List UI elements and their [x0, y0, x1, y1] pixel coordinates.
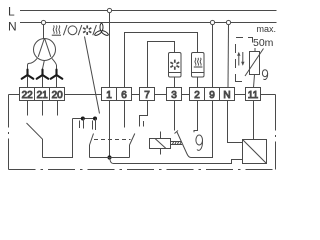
- svg-text:9: 9: [209, 90, 215, 101]
- valve heating divider: [192, 72, 205, 74]
- wire fan2 to terminal 21: [42, 77, 44, 88]
- contact prong rail d: [95, 119, 97, 131]
- wire N junction to fan motor: [43, 25, 45, 39]
- wire motor leg left: [28, 58, 38, 68]
- wire terminal 21 contact stub: [42, 101, 44, 116]
- svg-text:3: 3: [171, 90, 177, 101]
- label max.: [257, 24, 277, 34]
- icon mode separator slash 1: [63, 25, 67, 35]
- housing border bottom (dash-dot): [9, 169, 276, 171]
- relay coil stub bottom: [160, 149, 162, 155]
- fan propeller 2: [37, 70, 49, 79]
- contact prong rail b: [83, 119, 85, 129]
- node junction dot rail right: [93, 117, 97, 121]
- housing border right (dash-dot): [275, 95, 277, 170]
- wire motor leg right: [52, 58, 57, 68]
- switch changeover right arm: [130, 134, 135, 146]
- svg-text:1: 1: [106, 90, 112, 101]
- housing border left (dash-dot): [8, 95, 10, 170]
- remote sensor thermistor: [245, 48, 264, 76]
- contact tick on terminal 3 stub: [175, 131, 179, 134]
- wire common node right to changeover right: [110, 157, 130, 159]
- valve actuator heating box: [192, 53, 205, 78]
- terminal 22: [20, 88, 35, 101]
- fan propeller 1: [22, 70, 34, 79]
- wire mechanical link from mode selector: [85, 37, 100, 114]
- label 50m: [253, 37, 274, 49]
- wire bimetal arm to terminal 9: [191, 101, 213, 158]
- wire terminal 11 to right border: [261, 94, 276, 96]
- node junction on N line to terminal N: [226, 20, 230, 24]
- wire terminal N down to output interface: [228, 101, 243, 143]
- wire fan3 to terminal 20: [56, 77, 58, 88]
- wire L junction down to terminal 1: [109, 13, 111, 88]
- wire terminal 3 contact stub: [174, 101, 176, 131]
- valve cooling divider: [169, 72, 182, 74]
- motor inner chord right: [45, 39, 51, 57]
- svg-text:2: 2: [194, 90, 200, 101]
- contact prong rail a: [79, 121, 81, 129]
- wire heating valve to terminal 2: [197, 77, 199, 88]
- remote sensor dashed enclosure left and bottom: [236, 44, 243, 82]
- icon mode separator slash 2: [78, 25, 82, 35]
- svg-text:L: L: [8, 5, 15, 19]
- wire terminal N to 11: [235, 94, 246, 96]
- svg-text:max.: max.: [257, 24, 277, 34]
- node junction on N line to fan motor: [41, 20, 45, 24]
- wire terminal 6 lower contact stub: [124, 101, 126, 128]
- wire terminal 11 down to output interface: [253, 101, 255, 140]
- label N: [8, 20, 17, 34]
- svg-text:22: 22: [22, 90, 34, 101]
- svg-text:11: 11: [248, 90, 259, 101]
- icon mode off circle: [68, 26, 77, 35]
- fan propeller 3: [51, 70, 63, 79]
- wire terminal 20 contact stub: [57, 101, 59, 116]
- wire L line: [20, 10, 277, 12]
- icon mode fan: [94, 23, 109, 36]
- svg-text:50m: 50m: [253, 37, 274, 49]
- terminal 20: [50, 88, 65, 101]
- switch fan-speed selector arm: [27, 123, 43, 158]
- wire terminal row left border to 22: [9, 94, 20, 96]
- wire mechanical dashed link between switch arms: [94, 139, 131, 141]
- icon mode cool star: [83, 25, 91, 35]
- switch bimetal arm: [177, 132, 191, 158]
- label remote theta: [262, 70, 267, 80]
- wire motor leg centre: [43, 61, 45, 69]
- contact prong rail c: [92, 121, 94, 130]
- motor inner chord left: [38, 39, 44, 57]
- wire cooling valve to terminal 3: [174, 77, 176, 88]
- wire terminal 7 lower path: [140, 101, 148, 127]
- wire changeover left pivot down: [89, 145, 91, 158]
- wire selector common to contact rail: [43, 119, 73, 158]
- terminal 2: [190, 88, 205, 101]
- wire common node to output interface: [110, 158, 243, 164]
- label internal theta: [196, 135, 203, 150]
- wire N junction down to terminal N: [227, 25, 230, 88]
- relay coil diagonal: [155, 139, 166, 149]
- svg-text:N: N: [8, 20, 17, 34]
- wire terminal 20 to 1: [65, 94, 102, 96]
- terminal 9: [205, 88, 220, 101]
- wire terminal 6 up and over to heating valve: [125, 33, 198, 88]
- wire changeover right pivot down: [129, 145, 131, 158]
- icon mode separator slash 3: [93, 25, 97, 35]
- remote sensor dashed enclosure top: [236, 38, 253, 43]
- terminal 3: [167, 88, 182, 101]
- terminal 1: [102, 88, 117, 101]
- node junction dot rail left: [81, 117, 85, 121]
- wire remote sensor to terminal 11: [254, 75, 255, 88]
- wire terminal 22 contact stub: [27, 101, 29, 116]
- terminal 11: [246, 88, 261, 101]
- svg-text:N: N: [223, 90, 230, 101]
- wire fan1 to terminal 22: [27, 77, 29, 88]
- wire terminal 7 to 3: [155, 94, 167, 96]
- icon heat in heating valve: [194, 58, 203, 67]
- svg-text:20: 20: [52, 90, 64, 101]
- wire terminal 1 down to common node: [109, 101, 111, 158]
- svg-text:6: 6: [121, 90, 127, 101]
- relay coil stub top: [160, 132, 162, 139]
- terminal 21: [35, 88, 50, 101]
- switch changeover left arm: [90, 134, 94, 146]
- icon mode heat: [52, 25, 61, 35]
- wire contact rail horizontal: [73, 118, 98, 120]
- relay coil K1: [150, 139, 171, 149]
- label L: [8, 5, 15, 19]
- relay armature hatched link: [171, 142, 183, 145]
- contact prong terminal 7 second: [143, 121, 145, 127]
- icon setpoint up-down arrows: [237, 52, 244, 66]
- wire N line: [20, 22, 277, 24]
- wire common node left to changeover left: [90, 157, 110, 159]
- svg-text:7: 7: [144, 90, 150, 101]
- motor M fan 3-speed circle: [34, 39, 56, 61]
- node common junction dot: [107, 155, 111, 159]
- svg-text:21: 21: [37, 90, 49, 101]
- icon snowflake in cooling valve: [170, 60, 179, 70]
- wire terminal 2 contact stub with foot: [194, 101, 198, 133]
- output interface diagonal: [243, 140, 267, 164]
- output interface box with diagonal: [243, 140, 267, 164]
- wire N junction down to terminal 9: [212, 25, 214, 88]
- terminal 7: [140, 88, 155, 101]
- wire terminal 6 to 7: [132, 94, 140, 96]
- valve actuator cooling (snowflake) box: [169, 53, 182, 78]
- node junction on N line to terminal 9: [210, 20, 214, 24]
- wire terminal 7 up and over to cooling valve: [148, 42, 175, 88]
- node junction on L line to terminal 1: [107, 8, 111, 12]
- wire terminal 3 to 2: [182, 94, 190, 96]
- terminal N: [220, 88, 235, 101]
- terminal 6: [117, 88, 132, 101]
